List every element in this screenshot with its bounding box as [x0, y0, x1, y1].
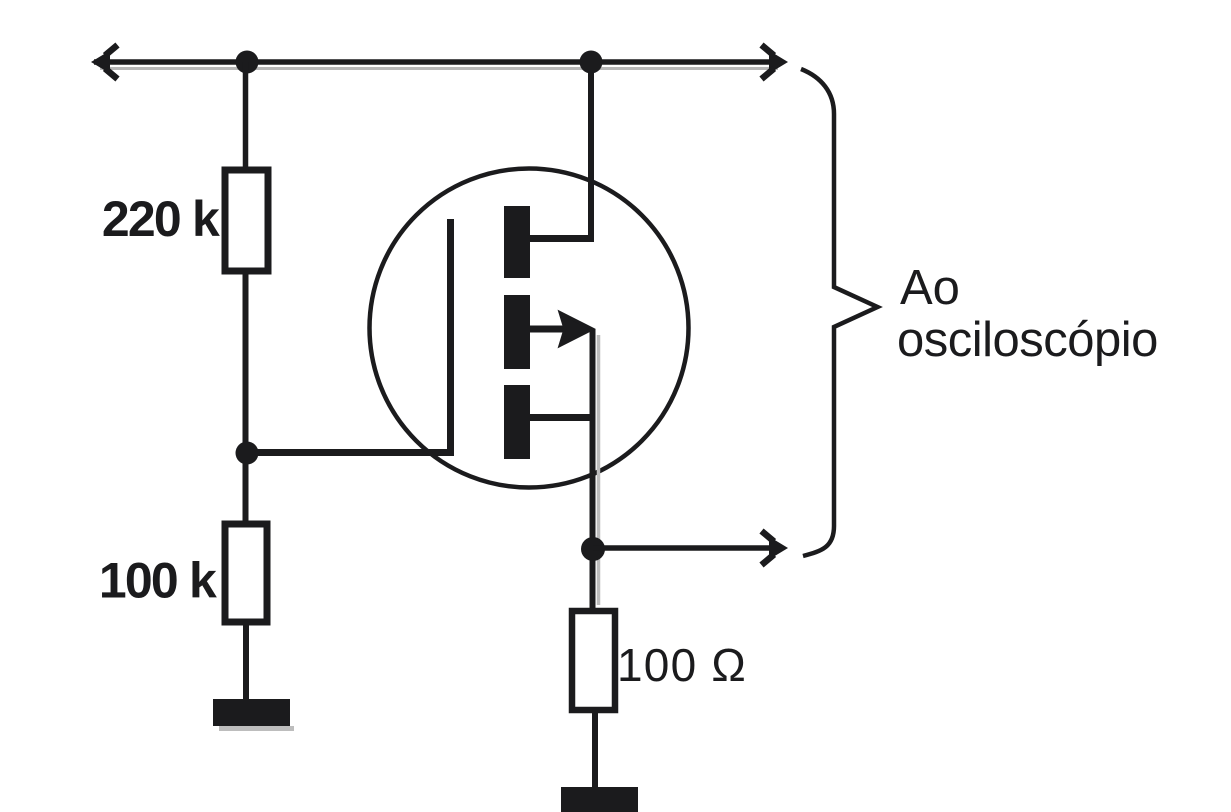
gate line of Q1 [447, 219, 454, 456]
resistor R1 220k [225, 170, 268, 271]
wire 100k to ground [243, 622, 249, 702]
svg-text:100 Ω: 100 Ω [617, 639, 747, 691]
body bar of Q1 [504, 295, 530, 369]
node junction at top of drain [580, 51, 603, 74]
left arrowhead of top rail [91, 45, 118, 79]
arrowhead output [762, 531, 789, 565]
node junction at top of 220k [236, 51, 259, 74]
wire 220k to gate node [243, 271, 249, 453]
wire gate horizontal [247, 449, 453, 456]
wire 100 ohm to ground [592, 710, 598, 790]
right arrowhead of top rail [762, 45, 789, 79]
ground left [213, 699, 290, 726]
wire output arrow [593, 545, 772, 551]
transistor Q1 envelope [370, 169, 689, 488]
wire source bar to source lead [528, 414, 595, 421]
node junction source output [581, 537, 605, 561]
svg-text:100 k: 100 k [99, 553, 217, 609]
ground bottom [561, 787, 638, 812]
resistor R2 100k [225, 524, 267, 622]
brace to oscilloscope [801, 69, 878, 556]
node junction gate divider [236, 442, 259, 465]
svg-text:220 k: 220 k [102, 191, 220, 247]
wire drain vertical [588, 62, 594, 242]
wire gate node to 100k [243, 453, 249, 524]
wire source vertical [597, 335, 601, 605]
source bar of Q1 [504, 385, 530, 459]
svg-text:Ao: Ao [900, 261, 960, 315]
wire drain bar to drain lead [528, 235, 594, 242]
top rail shadow [100, 67, 778, 70]
resistor R3 100 ohm [572, 611, 615, 710]
drain bar of Q1 [504, 206, 530, 278]
body arrow of Q1 [528, 326, 566, 333]
wire top rail [94, 59, 782, 65]
svg-text:osciloscópio: osciloscópio [897, 313, 1158, 367]
wire from top rail to 220k [243, 62, 249, 170]
